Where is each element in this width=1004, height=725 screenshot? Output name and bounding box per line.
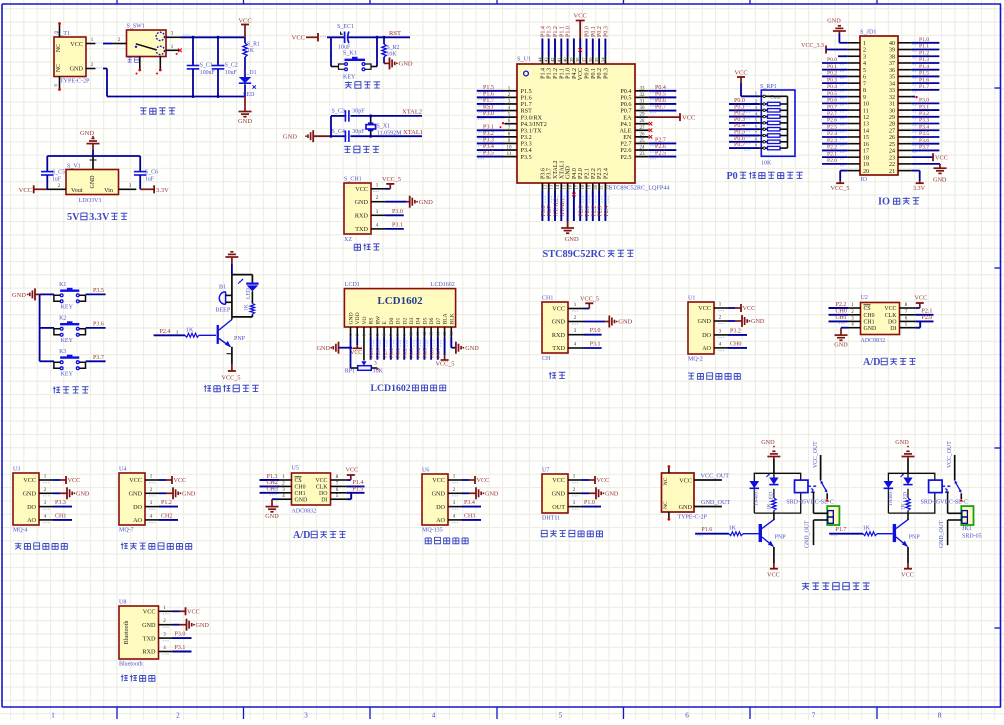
svg-text:GND: GND	[76, 491, 90, 498]
LCD pin 14 wire P0.7	[436, 338, 442, 360]
JD1 right pin 40 P1.0	[898, 37, 939, 45]
svg-text:VCC_3.3: VCC_3.3	[801, 43, 824, 49]
caption LCD1602 module	[371, 383, 446, 394]
LCD pin 14	[435, 327, 440, 338]
svg-text:VCC: VCC	[743, 305, 756, 312]
JD1 left pin line 11	[848, 109, 860, 111]
svg-text:D1: D1	[396, 317, 402, 324]
CH1 pin1 VCC_5	[568, 296, 599, 312]
JD1 left pin 6 P0.2	[822, 71, 848, 79]
LCD pin 12 wire P0.5	[423, 338, 429, 360]
U3 pin 2 GND	[39, 487, 90, 499]
module U7 DHT11 body	[542, 468, 568, 522]
svg-text:P1.3: P1.3	[267, 474, 278, 480]
svg-text:P2.5: P2.5	[655, 151, 666, 157]
svg-text:S_C4: S_C4	[332, 129, 345, 135]
svg-text:7: 7	[863, 81, 866, 87]
svg-text:IO: IO	[861, 176, 868, 183]
base resistor 1K P1.7	[829, 526, 893, 537]
svg-text:P0.1: P0.1	[591, 26, 597, 37]
U3 pin 4 AO	[39, 513, 72, 523]
svg-text:GND: GND	[552, 319, 566, 326]
svg-text:22: 22	[605, 184, 610, 189]
svg-text:12: 12	[863, 115, 869, 121]
svg-text:29: 29	[889, 115, 895, 121]
wire EC1 to RST	[348, 36, 410, 39]
svg-text:KEY: KEY	[61, 304, 74, 310]
svg-text:28: 28	[889, 122, 895, 128]
wire left branch down	[330, 37, 332, 66]
svg-text:RST: RST	[389, 30, 401, 37]
svg-text:RP1: RP1	[345, 369, 355, 375]
svg-text:VCC_5: VCC_5	[436, 361, 455, 368]
U3 pin 3 DO	[39, 500, 72, 510]
svg-text:P2.4: P2.4	[827, 131, 837, 137]
svg-text:11: 11	[507, 152, 512, 157]
svg-text:36: 36	[588, 57, 593, 62]
JD1 right pin 25 P3.6	[898, 138, 939, 146]
U5 right pin 5	[331, 493, 352, 499]
svg-text:11: 11	[415, 332, 420, 336]
svg-text:GND: GND	[295, 497, 309, 503]
caption fuwei circuit	[345, 81, 380, 88]
svg-text:BEEP: BEEP	[216, 308, 231, 314]
svg-text:10uF: 10uF	[225, 70, 238, 76]
U5 left pin 3	[260, 487, 292, 496]
LCD pin 3	[361, 327, 366, 338]
svg-text:14: 14	[555, 184, 560, 189]
svg-text:P3.4: P3.4	[483, 144, 494, 150]
JD1 left pin line 15	[848, 136, 860, 138]
svg-text:S_C2: S_C2	[225, 63, 238, 69]
LCD pin 10 wire P0.3	[409, 338, 415, 360]
chip bottom pin 17	[572, 183, 579, 221]
svg-text:U4: U4	[119, 467, 126, 473]
U6 pin 2 GND	[448, 487, 499, 499]
svg-text:44: 44	[537, 57, 542, 62]
wire R1 to LED	[244, 57, 246, 77]
svg-text:P1.6: P1.6	[701, 527, 712, 533]
svg-text:P2.5: P2.5	[620, 154, 631, 161]
chip bottom pin 19	[585, 183, 592, 221]
JD1 left pin line 12	[848, 116, 860, 118]
LCD pin 4	[368, 327, 373, 338]
svg-text:13: 13	[549, 184, 554, 189]
svg-text:XZ: XZ	[344, 237, 352, 243]
resistor 1K alarm	[244, 303, 255, 317]
ground alarm top	[225, 252, 238, 275]
U8 pin 4 RXD	[159, 645, 192, 655]
svg-text:VCC_5: VCC_5	[831, 185, 850, 192]
svg-text:15: 15	[561, 184, 566, 189]
caption STC89C52RC main chip	[543, 249, 634, 260]
VCC_3.3 to JD1 pin2	[801, 43, 848, 54]
svg-text:CH1: CH1	[295, 491, 306, 497]
svg-text:GND: GND	[142, 622, 156, 629]
U2 right pin 8	[900, 295, 928, 309]
svg-text:30: 30	[889, 108, 895, 114]
svg-text:VCC: VCC	[187, 609, 200, 616]
svg-text:8: 8	[863, 88, 866, 94]
JD1 left pin line 4	[848, 62, 860, 64]
svg-text:21: 21	[599, 184, 604, 189]
JD1 right pin 35 P1.5	[898, 71, 939, 79]
chip left pin 5	[477, 111, 517, 120]
svg-text:P2.7: P2.7	[382, 348, 388, 358]
svg-text:KEY: KEY	[343, 75, 356, 81]
svg-text:27: 27	[640, 126, 646, 131]
svg-text:2: 2	[863, 48, 866, 54]
JD1 left pin line 1	[848, 42, 860, 44]
svg-text:D2: D2	[402, 317, 408, 324]
chip top pin 41	[556, 26, 565, 64]
svg-text:GND: GND	[827, 18, 841, 25]
power VCC left	[19, 185, 47, 194]
JD1 right pin 23 VCC	[898, 153, 948, 161]
caption anjian circuit	[53, 386, 89, 393]
JD1 left pin 12 P2.7	[822, 111, 848, 119]
svg-text:12: 12	[422, 332, 427, 336]
connector S_T1 (TYPE-C-2P)	[54, 31, 90, 85]
TYPE-C-2P top pin	[668, 465, 671, 473]
svg-text:CS: CS	[295, 478, 302, 484]
svg-text:P2.3: P2.3	[597, 168, 603, 179]
svg-text:VCC: VCC	[767, 572, 780, 579]
JD1 right pin 30 P3.1	[898, 104, 939, 112]
svg-text:2: 2	[355, 334, 360, 336]
svg-text:P0: P0	[727, 171, 738, 182]
svg-text:VCC: VCC	[19, 187, 32, 194]
chip top pin 35	[594, 26, 603, 64]
svg-text:P3.1: P3.1	[392, 222, 403, 228]
svg-text:100uF: 100uF	[200, 70, 216, 76]
U5 left pin 4	[265, 494, 291, 520]
svg-text:26: 26	[889, 135, 895, 141]
capacitor S_C2 10uF	[212, 37, 238, 96]
svg-text:P0.0: P0.0	[389, 348, 395, 358]
svg-text:P3.4: P3.4	[919, 124, 929, 130]
JD1 right pin 21 3.3V	[898, 171, 926, 192]
power port VCC	[238, 17, 251, 37]
JD1 left pin 14 P2.5	[822, 124, 848, 132]
wire S_T1 to switch	[96, 42, 112, 43]
svg-text:20: 20	[863, 169, 869, 175]
resistor S_R1 1K	[243, 37, 260, 57]
svg-text:P1.7: P1.7	[919, 84, 929, 90]
svg-text:S_C3: S_C3	[332, 109, 345, 115]
regulator S_V1 LDO3V3	[66, 156, 119, 204]
JD1 left pin line 8	[848, 89, 860, 91]
svg-text:P0.7: P0.7	[436, 348, 442, 358]
svg-text:CH1: CH1	[836, 315, 847, 321]
JD1 right pin 31 P3.0	[898, 98, 939, 106]
LCD pin15 BLA VCC_5	[436, 338, 455, 368]
svg-text:AO: AO	[133, 517, 142, 524]
svg-text:STC89C52RC: STC89C52RC	[543, 249, 606, 260]
svg-text:1: 1	[348, 334, 353, 336]
chip left pin 9	[477, 137, 517, 146]
svg-text:P0.4: P0.4	[827, 84, 837, 90]
svg-text:P1.2: P1.2	[919, 50, 929, 56]
caption shengguang alarm	[204, 385, 259, 392]
VCC_OUT wire	[694, 473, 729, 481]
emitter VCC P1.7	[901, 547, 914, 579]
svg-text:P4.0: P4.0	[572, 168, 578, 179]
alarm top rail	[232, 275, 253, 292]
TYPE-C-2P bottom pin	[668, 512, 671, 521]
svg-text:CH0: CH0	[864, 313, 875, 319]
svg-text:ADC0832: ADC0832	[861, 338, 886, 344]
JD1 left pin line 5	[848, 69, 860, 71]
svg-text:U6: U6	[422, 468, 429, 474]
svg-text:VCC: VCC	[292, 35, 305, 42]
svg-text:P2.1: P2.1	[585, 206, 591, 217]
U8 pin 1 VCC	[159, 606, 200, 616]
net label RST	[389, 30, 401, 37]
relay coil P1.7	[929, 480, 952, 493]
svg-text:34: 34	[889, 81, 895, 87]
svg-text:GND: GND	[552, 491, 566, 498]
svg-text:P2.0: P2.0	[578, 168, 584, 179]
svg-text:P2.2: P2.2	[591, 206, 597, 217]
svg-text:P0.5: P0.5	[827, 91, 837, 97]
svg-text:9: 9	[863, 95, 866, 101]
svg-text:18: 18	[863, 155, 869, 161]
IC U2 ADC0832 body	[861, 295, 900, 344]
svg-text:U2: U2	[861, 295, 868, 301]
svg-text:P3.0: P3.0	[392, 209, 403, 215]
caption AD conversion left	[293, 530, 346, 541]
svg-text:GND: GND	[283, 134, 297, 141]
LCD pin 9	[402, 327, 407, 338]
LCD pin 10	[408, 327, 413, 338]
svg-text:NC: NC	[663, 477, 669, 485]
svg-text:P3.5: P3.5	[93, 288, 104, 294]
svg-text:GND: GND	[12, 292, 26, 299]
svg-text:1N4007: 1N4007	[754, 489, 760, 506]
svg-text:S_R2: S_R2	[387, 45, 400, 51]
LCD pin 13 wire P0.6	[429, 338, 435, 360]
svg-text:DO: DO	[133, 504, 142, 511]
svg-text:D5: D5	[422, 317, 428, 324]
LCD pin 1	[348, 327, 353, 338]
caption ben module	[425, 537, 468, 543]
chip right pin 32	[635, 91, 676, 100]
JD1 right pin 32 stub	[898, 96, 918, 98]
svg-text:S_C6: S_C6	[145, 170, 158, 176]
svg-text:P2.6: P2.6	[376, 348, 382, 358]
svg-text:XTAL2: XTAL2	[554, 198, 560, 217]
relay channel P1.6 ground	[761, 439, 780, 459]
JD1 right pin 29 P3.2	[898, 111, 939, 119]
svg-text:P3.7: P3.7	[547, 168, 553, 179]
svg-text:30: 30	[640, 106, 646, 111]
svg-text:GND: GND	[70, 66, 84, 73]
power 3.3V port	[140, 185, 169, 194]
svg-text:P2.2: P2.2	[836, 302, 847, 308]
svg-text:33: 33	[640, 86, 646, 91]
resistor 1K P1.7 relay	[901, 498, 911, 511]
svg-text:MQ-4: MQ-4	[13, 528, 28, 534]
svg-text:5: 5	[863, 68, 866, 74]
chip top pin 42	[550, 26, 559, 64]
left vertical wire crystal	[330, 116, 332, 136]
LCD pin 15	[442, 327, 447, 338]
svg-text:16: 16	[568, 184, 573, 189]
svg-text:Bluetooth: Bluetooth	[119, 662, 143, 668]
svg-text:XTAL1: XTAL1	[559, 160, 565, 179]
svg-text:37: 37	[889, 61, 895, 67]
svg-text:CH0: CH0	[295, 485, 306, 491]
svg-text:GND: GND	[317, 345, 331, 352]
svg-text:VCC_OUT: VCC_OUT	[947, 441, 953, 468]
svg-text:40: 40	[889, 41, 895, 47]
chip left pin 8	[477, 131, 517, 140]
capacitor S_EC1 10uF	[337, 24, 354, 51]
svg-text:14: 14	[863, 128, 869, 134]
svg-text:P4.2: P4.2	[572, 68, 578, 79]
LED P1.6 relay	[766, 474, 778, 503]
svg-text:6: 6	[685, 712, 689, 720]
ground reset circuit	[384, 57, 413, 69]
svg-text:P2.2: P2.2	[591, 168, 597, 179]
wire XTAL1 bottom	[331, 135, 422, 137]
svg-text:30pF: 30pF	[352, 129, 365, 135]
svg-text:VCC: VCC	[578, 68, 584, 80]
svg-text:18: 18	[580, 184, 585, 189]
chip left pin 7	[477, 124, 517, 133]
svg-text:P0.2: P0.2	[597, 68, 603, 79]
svg-text:11.0592M: 11.0592M	[377, 131, 402, 137]
svg-text:CS: CS	[864, 306, 871, 312]
svg-text:P0.4: P0.4	[416, 348, 422, 358]
svg-text:S_U1: S_U1	[517, 56, 531, 63]
svg-text:VCC: VCC	[315, 478, 327, 484]
svg-text:BLK: BLK	[449, 313, 455, 324]
IC U5 ADC0832 body	[292, 466, 331, 515]
svg-text:VCC: VCC	[143, 609, 156, 616]
svg-text:TXD: TXD	[143, 635, 156, 642]
svg-text:P1.5: P1.5	[919, 71, 929, 77]
JD1 left pin 11 P0.7	[822, 104, 848, 112]
svg-text:P0.0: P0.0	[585, 26, 591, 37]
svg-text:S_C5: S_C5	[52, 170, 65, 176]
LCD pin3 VO to pot	[363, 338, 365, 361]
svg-text:P1.2: P1.2	[161, 500, 172, 506]
chip bottom pin 18	[579, 183, 586, 221]
pin 3 of S_SW1	[166, 32, 181, 38]
svg-text:S_V1: S_V1	[67, 164, 81, 170]
svg-text:P3.0: P3.0	[590, 328, 601, 334]
svg-text:16: 16	[863, 142, 869, 148]
JD1 right pin 36 P1.4	[898, 64, 939, 72]
svg-text:P0.3: P0.3	[827, 77, 837, 83]
svg-text:SRD-05: SRD-05	[962, 534, 982, 540]
svg-text:DO: DO	[888, 320, 897, 326]
JD1 left pin line 14	[848, 129, 860, 131]
svg-text:P0.5: P0.5	[655, 91, 666, 97]
svg-text:GND: GND	[238, 118, 252, 125]
svg-text:GND: GND	[864, 326, 878, 332]
chip right pin 28	[635, 119, 652, 125]
svg-text:STC89C52RC_LQFP44: STC89C52RC_LQFP44	[609, 185, 670, 192]
svg-text:P2.3: P2.3	[598, 206, 604, 217]
svg-text:23: 23	[640, 152, 646, 157]
svg-text:LCD1602: LCD1602	[371, 383, 411, 394]
U2 left pin 1	[829, 302, 861, 311]
RP1 resistor 3 P0.2	[729, 111, 788, 120]
svg-text:P2.4: P2.4	[160, 329, 171, 335]
JD1 left pin line 19	[848, 163, 860, 165]
JD1 left pin line 13	[848, 123, 860, 125]
JD1 right pin 39 P1.1	[898, 44, 939, 52]
U2 right pin 5	[900, 321, 921, 327]
CH1 pin3 P3.0	[568, 328, 602, 335]
svg-text:P1.3: P1.3	[919, 57, 929, 63]
chip right pin 24	[635, 144, 676, 153]
pin 1 VCC S_CH1	[371, 183, 390, 192]
svg-text:VCC: VCC	[884, 306, 896, 312]
caption CO module	[121, 543, 192, 550]
svg-text:Bluetooth: Bluetooth	[124, 621, 130, 645]
key switch S_K1	[331, 51, 377, 81]
svg-text:P3.0: P3.0	[175, 632, 186, 638]
U2 right pin 7	[900, 309, 934, 315]
JD1 right pin 28 P3.3	[898, 118, 939, 126]
svg-text:S_R1: S_R1	[247, 42, 260, 48]
svg-text:P0.4: P0.4	[655, 85, 666, 91]
svg-text:P2.0: P2.0	[827, 158, 837, 164]
net label XTAL1	[403, 129, 423, 136]
wire right branch down	[376, 37, 378, 66]
svg-text:D7: D7	[436, 317, 442, 324]
relay channel P1.7 ground	[895, 439, 914, 459]
svg-text:P2.0: P2.0	[579, 206, 585, 217]
chip left pin 4	[477, 105, 517, 114]
relay contact P1.6	[786, 441, 833, 513]
svg-text:Vout: Vout	[71, 187, 83, 194]
U4 pin 1 VCC	[145, 475, 186, 485]
svg-text:P1.4: P1.4	[540, 26, 546, 37]
svg-text:P1.2: P1.2	[553, 68, 559, 79]
base wire P2.4 1K	[154, 328, 216, 338]
wire VCC to cap EC1	[320, 36, 344, 37]
svg-text:17: 17	[574, 184, 579, 189]
svg-text:LCD1602: LCD1602	[431, 282, 455, 288]
svg-text:P0.6: P0.6	[734, 136, 745, 142]
svg-text:DO: DO	[27, 504, 36, 511]
svg-text:P1.5: P1.5	[353, 487, 364, 493]
svg-text:29: 29	[640, 113, 646, 118]
svg-text:AO: AO	[27, 517, 36, 524]
svg-text:BLA: BLA	[443, 313, 449, 324]
svg-text:P1.4: P1.4	[353, 480, 364, 486]
svg-text:VCC: VCC	[935, 154, 948, 161]
svg-text:P3.3: P3.3	[483, 137, 494, 143]
svg-text:P3.6: P3.6	[919, 138, 929, 144]
JD1 right pin 33 P1.7	[898, 84, 939, 92]
connector TYPE-C-2P relay	[662, 473, 708, 520]
wire S_T1 GND down and right	[96, 67, 245, 96]
svg-text:1K: 1K	[247, 48, 255, 54]
chip left pin 1	[477, 85, 517, 94]
svg-text:32: 32	[889, 95, 895, 101]
U2 left pin 2	[829, 309, 861, 318]
svg-text:D3: D3	[409, 317, 415, 324]
RP1 resistor 1 P0.0	[729, 98, 788, 107]
svg-text:CLK: CLK	[885, 313, 898, 319]
JD1 left pin 19 P2.0	[822, 158, 848, 166]
